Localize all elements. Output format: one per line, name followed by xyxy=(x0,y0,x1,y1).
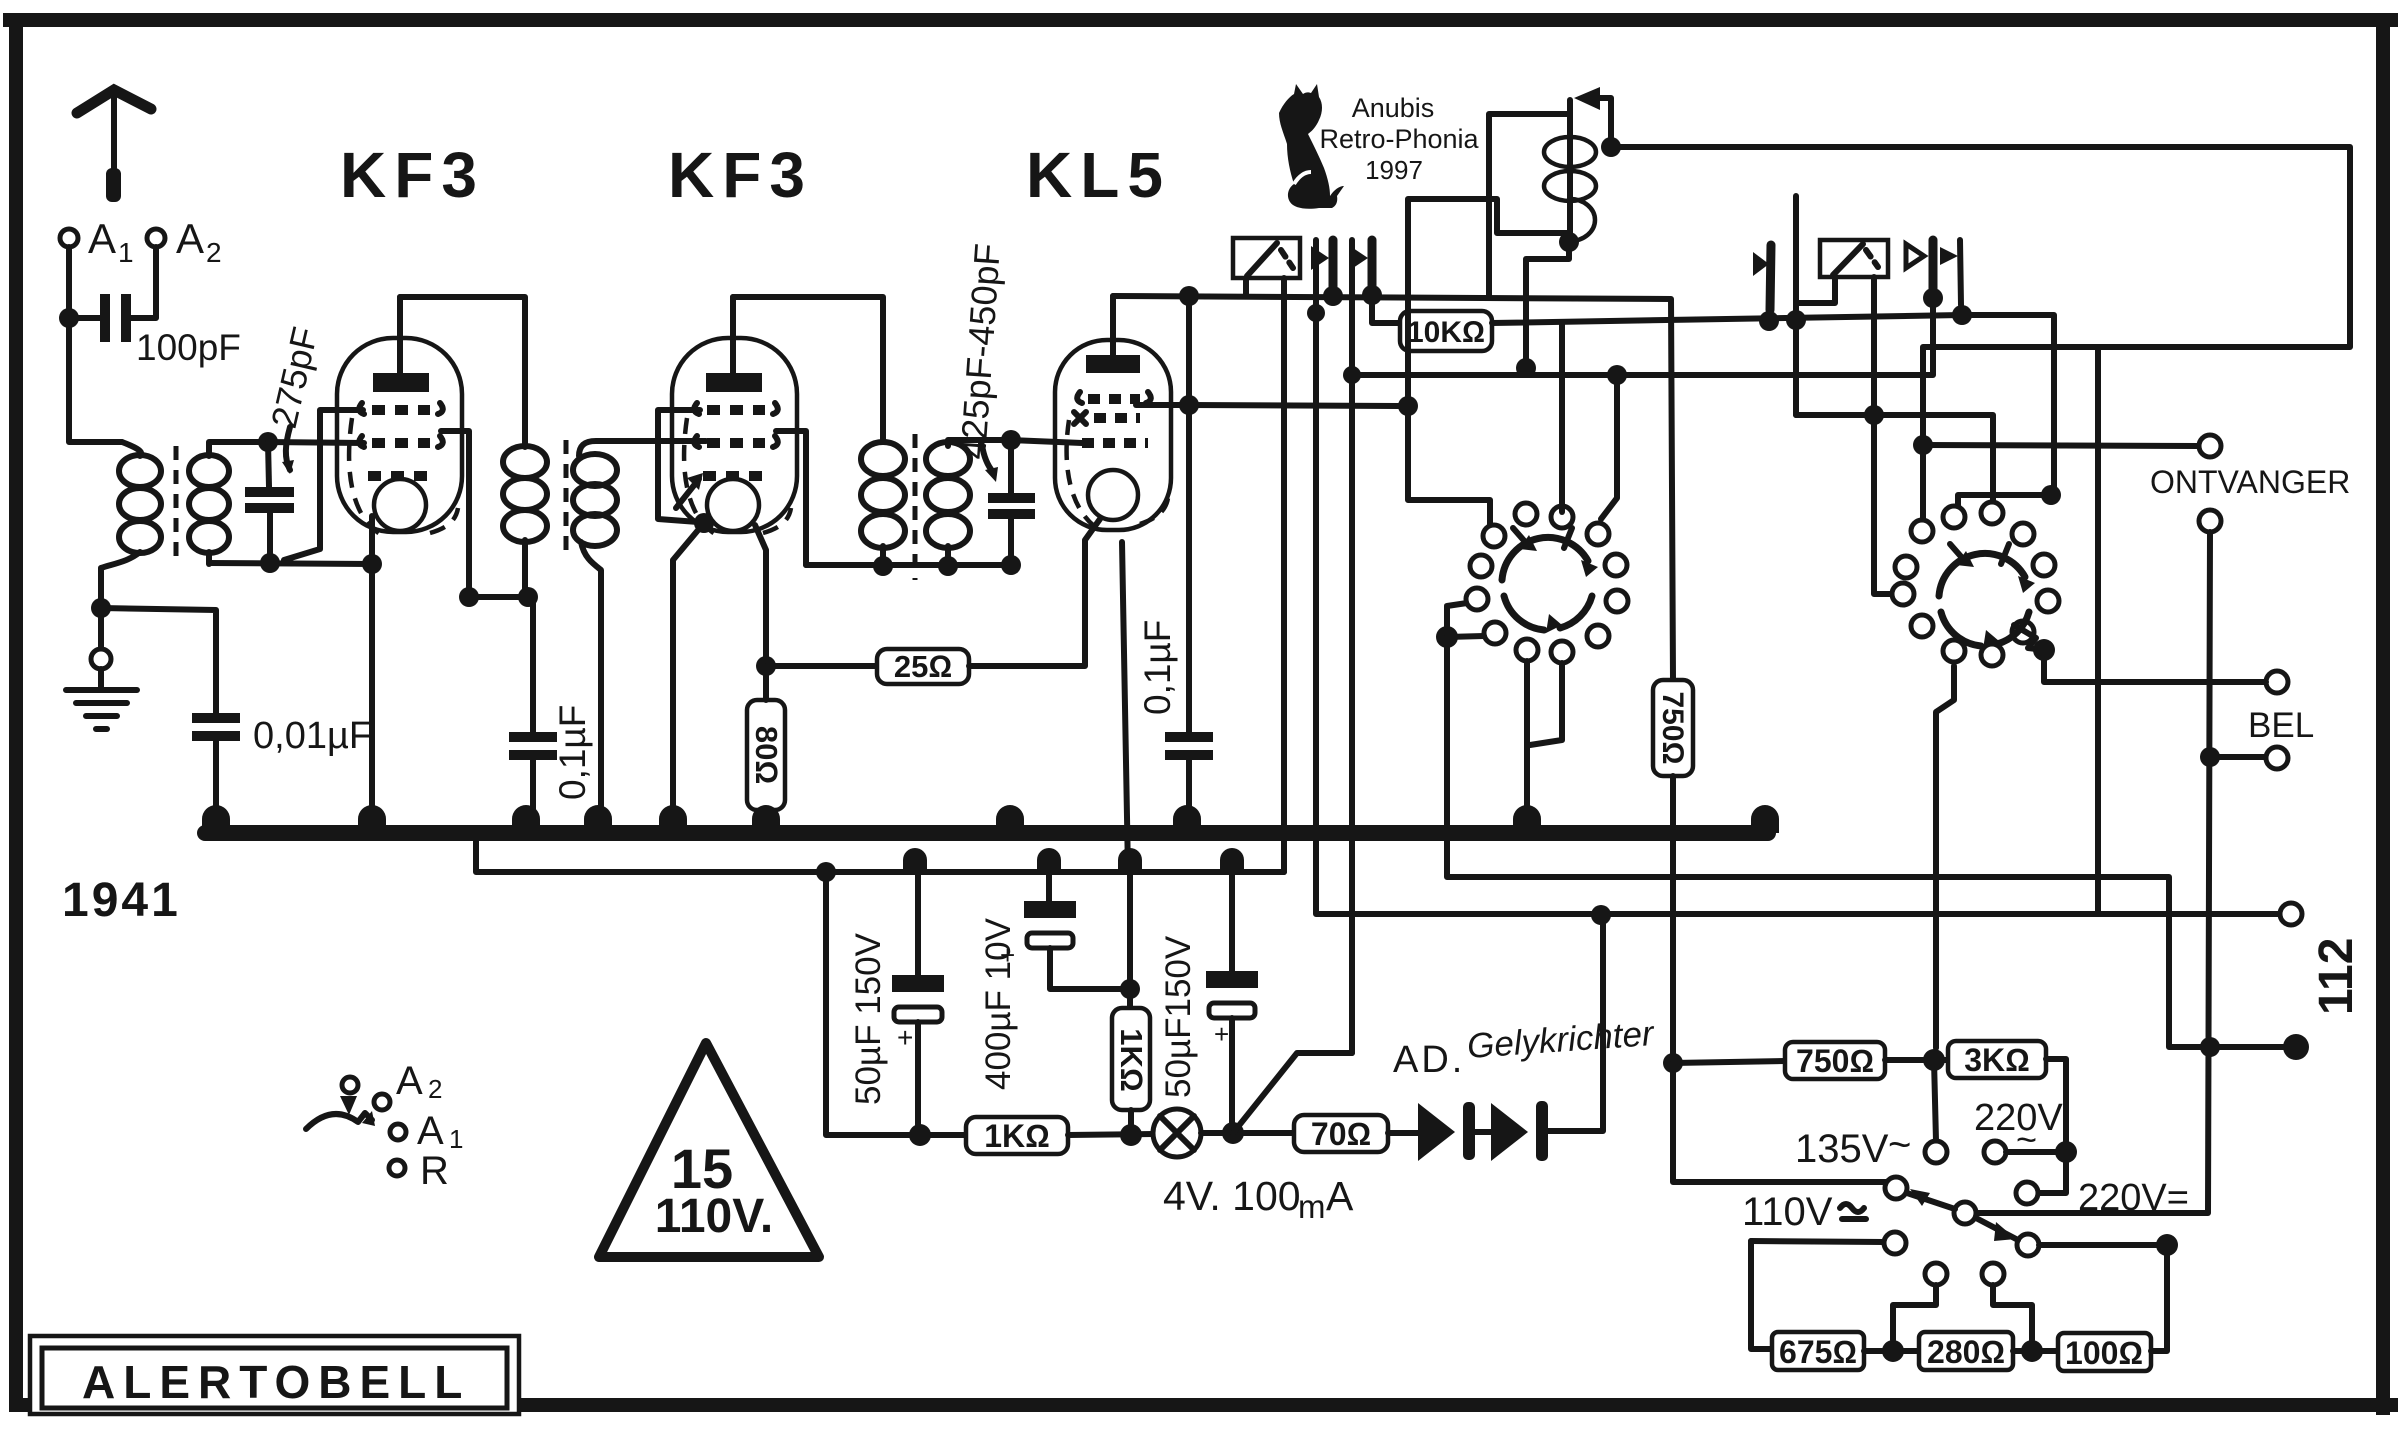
lower line humps xyxy=(903,848,1244,872)
svg-text:1: 1 xyxy=(118,237,134,268)
svg-text:ALERTOBELL: ALERTOBELL xyxy=(82,1356,470,1408)
wire jack J2 to resistor 10K xyxy=(1372,295,1400,323)
wire 1K to lamp xyxy=(1068,1134,1154,1135)
wire KL5 cathode to HT line xyxy=(1122,542,1128,872)
capacitor 0.01uF xyxy=(192,713,240,723)
wire ONTVANGER to BEL and switch xyxy=(1976,532,2210,1213)
resistor R 675 ohm xyxy=(1772,1332,1864,1370)
wire tube V2 cathode to bus xyxy=(673,523,704,828)
wire S2 wiper to BEL xyxy=(2014,625,2044,650)
svg-text:KL5: KL5 xyxy=(1026,139,1171,211)
terminal A2 xyxy=(147,229,165,247)
svg-text:AD.: AD. xyxy=(1393,1039,1465,1081)
tube V1 screen wire xyxy=(441,431,469,597)
node grid line xyxy=(258,432,278,452)
IF transformer T2 core xyxy=(913,434,918,580)
capacitor 0.1uF stage1 xyxy=(509,732,557,742)
tube V3 grid row 3 xyxy=(1082,438,1148,448)
wire screen feed line y375 xyxy=(1352,298,1933,375)
tube V3 grid row 2 xyxy=(1074,412,1086,424)
terminal ONTVANGER upper xyxy=(2199,435,2221,457)
svg-text:R: R xyxy=(420,1149,449,1193)
tube V2 inner dashed envelope xyxy=(684,418,791,534)
svg-text:3KΩ: 3KΩ xyxy=(1964,1042,2029,1078)
wire tube V2 suppressor bracket xyxy=(658,410,700,522)
jack J5 xyxy=(1770,245,1771,310)
Anubis logo dog xyxy=(1279,84,1344,209)
resistor R 750 ohm xyxy=(1785,1042,1885,1079)
tube V2 screen wire xyxy=(776,431,806,565)
node choke bottom xyxy=(1559,232,1579,252)
tube V3 grid row 1 xyxy=(1077,392,1151,403)
svg-text:70Ω: 70Ω xyxy=(1311,1116,1371,1152)
tube V2 grid row 3 xyxy=(703,471,767,481)
selector terminals mid xyxy=(1925,1263,1947,1285)
svg-text:4V. 100: 4V. 100 xyxy=(1163,1173,1301,1219)
wire mid terminals to taps xyxy=(1893,1285,1936,1340)
svg-text:A: A xyxy=(396,1059,423,1103)
svg-text:A: A xyxy=(417,1109,444,1153)
svg-text:m: m xyxy=(1298,1188,1326,1225)
wire diode link xyxy=(1475,1129,1491,1135)
svg-text:112: 112 xyxy=(2310,938,2363,1015)
wire contact line to 112 xyxy=(1316,240,2280,914)
wire IF1 secondary bottom to bus xyxy=(581,542,601,828)
svg-text:50µF 150V: 50µF 150V xyxy=(849,932,888,1105)
tube V2 anode xyxy=(706,373,762,392)
capacitor C 100pF xyxy=(100,294,110,342)
wire 70 ohm to rectifier xyxy=(1388,1130,1418,1136)
svg-text:+: + xyxy=(897,1022,913,1053)
jack J1 xyxy=(1329,240,1338,293)
tube V2 cathode xyxy=(707,479,759,531)
tube V1 suppressor bracket xyxy=(284,410,363,560)
svg-text:135V: 135V xyxy=(1795,1127,1889,1171)
node junction A1 xyxy=(59,308,79,328)
ground xyxy=(66,690,137,729)
wire BEL upper to switch S2 xyxy=(2044,652,2266,682)
grid capacitor 425pF-450pF xyxy=(1008,440,1014,493)
trimmer capacitor 275pF xyxy=(268,442,269,487)
svg-text:1941: 1941 xyxy=(62,874,181,927)
wire BEL link xyxy=(2210,754,2266,760)
svg-text:100Ω: 100Ω xyxy=(2065,1335,2143,1371)
IF transformer T1 core xyxy=(564,440,569,560)
wire HT rail left xyxy=(826,872,968,1135)
wire lamp to 70 ohm xyxy=(1201,1130,1294,1136)
node 280-100 xyxy=(2021,1340,2043,1362)
tube V3 inner dashed envelope xyxy=(1067,420,1168,526)
terminal 220V AC xyxy=(1984,1141,2006,1163)
wire to terminal ONTVANGER xyxy=(1923,445,2199,446)
tube V1 grid row 1 xyxy=(359,403,443,414)
terminal 220V DC xyxy=(2016,1182,2038,1204)
node 675-280 xyxy=(1882,1340,1904,1362)
tube V2 grid row 1 xyxy=(694,403,778,414)
svg-text:110V.: 110V. xyxy=(655,1190,773,1243)
triangle mark 15/110V xyxy=(599,1043,819,1257)
tube V3 screen wire xyxy=(1136,402,1189,408)
node coil bottom xyxy=(91,598,111,618)
wire relay K2 right lead xyxy=(1874,277,1895,594)
svg-text:750Ω: 750Ω xyxy=(1656,691,1689,764)
relay K2 xyxy=(1820,240,1888,277)
wave change selector SW-A xyxy=(306,1113,372,1129)
wire relay K1 right lead to bus xyxy=(1281,278,1287,872)
svg-text:220V=: 220V= xyxy=(2078,1177,2189,1219)
tube V1 grid row 2 xyxy=(359,436,443,447)
wire S1 feed xyxy=(1408,406,1490,525)
svg-text:~: ~ xyxy=(2016,1119,2037,1160)
svg-text:ONTVANGER: ONTVANGER xyxy=(2150,464,2350,500)
antenna symbol xyxy=(77,90,151,113)
electrolytic capacitor 50uF 150V no1 xyxy=(915,872,921,975)
voltage selector switch S3 xyxy=(1885,1177,1907,1199)
wire choke loop bracket xyxy=(1408,199,1570,406)
svg-text:110V: 110V xyxy=(1742,1190,1833,1234)
electrolytic capacitor 400uF 10V xyxy=(1046,872,1052,901)
svg-text:KF3: KF3 xyxy=(668,139,813,211)
tube V3 envelope xyxy=(1055,340,1171,530)
svg-text:400µF 10V: 400µF 10V xyxy=(979,917,1018,1090)
svg-text:50µF150V: 50µF150V xyxy=(1159,935,1198,1098)
node BEL xyxy=(2200,747,2220,767)
wire right vertical from route xyxy=(2095,347,2101,914)
resistor R 1K vertical xyxy=(1112,1008,1150,1110)
wire switch feed line y415 xyxy=(1796,415,1993,505)
IF transformer T1 secondary xyxy=(573,454,617,486)
ground bus xyxy=(205,825,1768,841)
wire S2 bottom to 3K node xyxy=(1936,666,1954,1048)
wire lamp node diagonal to jack line xyxy=(1233,1053,1352,1133)
wire 10K output xyxy=(1492,315,1962,323)
bus connection humps xyxy=(202,805,1779,833)
title box ALERTOBELL xyxy=(30,1336,519,1414)
wire lower ground line xyxy=(476,833,1284,872)
svg-text:280Ω: 280Ω xyxy=(1927,1334,2005,1370)
resistor R 280 ohm xyxy=(1919,1332,2013,1370)
svg-text:1KΩ: 1KΩ xyxy=(1114,1028,1149,1091)
resistor R 25 ohm xyxy=(877,649,969,684)
wire to ground switch xyxy=(98,608,104,650)
terminal A1 xyxy=(60,229,78,247)
svg-text:675Ω: 675Ω xyxy=(1779,1334,1857,1370)
tube V1 anode wire to IF1 xyxy=(400,297,525,447)
svg-text:10KΩ: 10KΩ xyxy=(1407,316,1485,349)
wire cathode to resistor 25 ohm xyxy=(766,663,877,669)
resistor R 100 ohm xyxy=(2058,1333,2151,1371)
jack J2 xyxy=(1368,240,1377,292)
wire to 0.01uF xyxy=(101,608,216,713)
svg-text:~: ~ xyxy=(1888,1123,1911,1167)
node cathode line xyxy=(260,553,280,573)
wire anode line y296 xyxy=(1113,296,1673,680)
wire to capacitor xyxy=(69,315,101,321)
wire cathode line xyxy=(209,563,372,564)
tube V3 anode xyxy=(1086,355,1140,373)
wire capacitor to A2 xyxy=(131,247,156,318)
svg-text:750Ω: 750Ω xyxy=(1796,1043,1874,1079)
svg-text:1: 1 xyxy=(449,1124,463,1154)
svg-text:2: 2 xyxy=(428,1074,442,1104)
wire S1 bottom to bus xyxy=(1524,661,1530,826)
rectifier diode D2 xyxy=(1491,1103,1528,1161)
terminal 135V xyxy=(1925,1141,1947,1163)
antenna coil L1 primary xyxy=(122,442,141,456)
wire S1 contact to AVC xyxy=(1601,375,1617,519)
tube V2 envelope xyxy=(672,338,797,532)
jack J6 pair xyxy=(1906,244,1924,268)
svg-text:0,01µF: 0,01µF xyxy=(253,715,372,757)
wire grid line to tube 1 xyxy=(268,442,364,443)
wire selector loop to 675 xyxy=(1751,1241,1772,1349)
svg-text:0,1µF: 0,1µF xyxy=(1137,620,1178,715)
resistor R 80 ohm xyxy=(747,700,785,810)
tube V1 grid row 3 xyxy=(368,471,432,481)
wire 3K output to 220V xyxy=(2046,1059,2066,1152)
IF transformer T2 secondary xyxy=(926,442,970,476)
relay K1 xyxy=(1233,238,1300,278)
wire to 220V DC xyxy=(2038,1152,2066,1193)
capacitor 0.1uF KL5 xyxy=(1165,732,1213,742)
IF transformer T1 primary xyxy=(503,446,547,478)
tube V1 inner dashed envelope xyxy=(349,418,458,534)
svg-text:Retro-Phonia: Retro-Phonia xyxy=(1319,124,1479,154)
wire A1 to junction xyxy=(66,247,72,318)
wire junction down to coil xyxy=(69,318,122,442)
resistor R 1K series xyxy=(966,1117,1068,1154)
wire IF1 primary bottom xyxy=(525,545,533,732)
wire 25 ohm to KL5 cathode xyxy=(969,519,1100,666)
choke arrow top xyxy=(1586,98,1611,147)
wire selector row lower xyxy=(1751,1241,1884,1242)
wire S1 bottom-left xyxy=(1447,636,1484,637)
terminal ONTVANGER lower xyxy=(2199,510,2221,532)
svg-text:+: + xyxy=(1214,1019,1229,1049)
wire S1 bottom-left terminal branch xyxy=(1447,603,1467,637)
tube V1 anode lead xyxy=(397,297,403,373)
wire IF2 secondary top to KL5 grid xyxy=(948,440,1011,442)
rectifier diode D1 xyxy=(1418,1103,1455,1161)
wire HT node to 750 row xyxy=(1673,1061,1785,1063)
node 400uF junction xyxy=(1120,979,1140,999)
tube V2 cathode lead xyxy=(755,525,766,666)
svg-text:BEL: BEL xyxy=(2248,706,2314,745)
wire suppressor line y565 xyxy=(806,562,1011,568)
wire jack line xyxy=(1349,240,1355,1053)
wire 100 ohm up to switch output xyxy=(2151,1245,2167,1351)
svg-text:KF3: KF3 xyxy=(340,139,485,211)
node rectifier to 112 xyxy=(1591,905,1611,925)
coil core xyxy=(174,446,179,562)
electrolytic capacitor 50uF 150V no2 xyxy=(1229,872,1235,971)
svg-text:1KΩ: 1KΩ xyxy=(984,1118,1049,1154)
IF transformer T2 primary xyxy=(861,442,905,476)
svg-text:A: A xyxy=(1326,1173,1354,1219)
resistor R 10K xyxy=(1400,311,1492,351)
wire IF1 secondary top to tube V2 grid xyxy=(579,441,706,456)
wire choke to ONTVANGER route xyxy=(1611,147,2350,531)
tube V2 grid row 2 xyxy=(694,436,778,447)
wire rectifier output xyxy=(1548,916,1603,1131)
svg-text:80Ω: 80Ω xyxy=(749,726,784,784)
resistor R 70 ohm xyxy=(1294,1115,1388,1152)
tube V3 cathode xyxy=(1088,470,1138,520)
svg-text:100pF: 100pF xyxy=(136,327,241,368)
wire S1 middle top xyxy=(1559,322,1565,512)
svg-text:A: A xyxy=(88,215,116,262)
wire tube1 cathode to bus xyxy=(369,516,375,828)
svg-text:Anubis: Anubis xyxy=(1352,93,1435,123)
rotary switch S2 xyxy=(1892,502,2059,666)
terminal 112 lower xyxy=(2283,1034,2309,1060)
svg-text:25Ω: 25Ω xyxy=(894,649,952,684)
wire 750 to 3K xyxy=(1885,1057,1948,1063)
wire switch output xyxy=(2039,1242,2167,1248)
resistor R 3K xyxy=(1948,1041,2046,1078)
wire 3K node to 135V tap xyxy=(1934,1060,1936,1141)
output choke L2 xyxy=(1567,100,1573,242)
svg-text:2: 2 xyxy=(206,237,222,268)
terminal BEL upper xyxy=(2266,671,2288,693)
terminal 112 upper xyxy=(2280,903,2302,925)
tube V2 cathode arrow xyxy=(676,479,699,508)
wire relay K1 left lead xyxy=(1243,278,1249,296)
svg-text:A: A xyxy=(176,215,204,262)
tube V1 cathode xyxy=(374,479,426,531)
wire S2 top terminal feed xyxy=(2041,485,2061,505)
antenna coil L1 secondary xyxy=(209,442,268,456)
terminal BEL lower xyxy=(2266,747,2288,769)
wire screen bypass vertical xyxy=(1186,296,1192,732)
svg-text:1997: 1997 xyxy=(1365,155,1423,185)
resistor R 750 vertical xyxy=(1653,680,1693,776)
rotary switch S1 xyxy=(1466,503,1628,663)
tube V2 anode wire to IF2 xyxy=(733,297,883,442)
tube V1 envelope xyxy=(337,338,462,532)
wire AVC line y405 xyxy=(1189,405,1408,406)
wire relay K2 left lead xyxy=(1799,277,1835,303)
pilot lamp 4V 100mA xyxy=(1153,1109,1201,1157)
tube V1 anode xyxy=(373,373,429,392)
svg-text:0,1µF: 0,1µF xyxy=(552,705,593,800)
